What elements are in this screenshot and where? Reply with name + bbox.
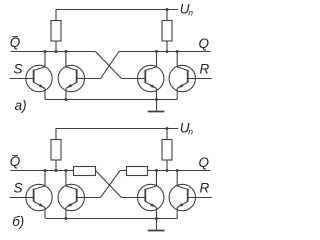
wire VT1 collector a (44, 52, 46, 67)
resistor R1 b (51, 140, 61, 161)
transistor VT2 b (58, 184, 84, 210)
svg-text:Q: Q (10, 154, 21, 169)
node Qbar-T1 collector b (44, 169, 47, 172)
wire VT2 emitter a (65, 88, 67, 99)
label Q a (199, 36, 210, 51)
resistor R2 a (162, 21, 172, 42)
wire VT4 emitter a (176, 88, 178, 99)
node rail-ground a (155, 98, 158, 101)
node rail-R2 junction a (166, 8, 169, 11)
wire VT3 collector b (156, 171, 158, 186)
node Qbar-T1 collector a (44, 50, 47, 53)
svg-text:Q: Q (199, 36, 210, 51)
wire Q to T2 base a (85, 52, 120, 79)
wire V+ rail a (56, 10, 178, 21)
transistor VT2 a (58, 65, 84, 91)
wire VT3 emitter a (156, 88, 158, 99)
transistor VT3 a (138, 65, 164, 91)
svg-text:R: R (200, 62, 210, 77)
transistor VT4 a (169, 65, 195, 91)
label Un a (180, 1, 194, 17)
resistor R3 coupling b (74, 167, 96, 176)
wire VT4 collector b (176, 171, 178, 186)
node Q-T4 collector a (176, 50, 179, 53)
wire VT3 emitter b (156, 207, 158, 218)
wire VT1 emitter a (44, 88, 46, 99)
resistor R2 b (162, 140, 172, 161)
label Q b (199, 155, 210, 170)
transistor VT1 a (26, 65, 52, 91)
svg-text:S: S (13, 62, 22, 77)
wire emitter rail a (45, 99, 177, 101)
ground a (148, 100, 165, 112)
label S a (13, 62, 22, 77)
wire VT3 collector a (156, 52, 158, 67)
transistor VT1 b (26, 184, 52, 210)
node rail-ground b (155, 217, 158, 220)
wire R2 top stub a (166, 10, 168, 21)
wire R input a (196, 78, 212, 80)
label Qbar b (10, 154, 21, 169)
svg-text:n: n (188, 126, 193, 136)
wire R2 top stub b (166, 129, 168, 140)
node Q-T3 collector b (155, 169, 158, 172)
wire R1 bottom stub b (55, 160, 57, 171)
svg-text:R: R (200, 181, 210, 196)
svg-text:а): а) (15, 98, 27, 113)
node Qbar-T2 collector a (64, 50, 67, 53)
wire Qbar to T3 base a (95, 52, 137, 79)
node Qbar-R1 b (55, 169, 58, 172)
svg-text:S: S (13, 181, 22, 196)
svg-text:б): б) (12, 214, 24, 229)
wire S input b (10, 197, 26, 199)
wire Q a (119, 51, 211, 53)
node Q-R2 b (166, 169, 169, 172)
svg-text:Q: Q (10, 35, 21, 50)
label S b (13, 181, 22, 196)
resistor R4 coupling b (127, 167, 148, 176)
wire R2 bottom stub a (166, 41, 168, 52)
wire R1 bottom stub a (55, 41, 57, 52)
ground b (148, 219, 165, 231)
svg-text:Q: Q (199, 155, 210, 170)
wire VT2 collector b (65, 171, 67, 186)
wire VT1 collector b (44, 171, 46, 186)
wire Qbar b (10, 170, 73, 172)
wire R4 left stub b (120, 170, 127, 172)
node Qbar-R1 a (55, 50, 58, 53)
wire Q b (148, 170, 211, 172)
wire emitter rail b (45, 218, 177, 220)
node rail-R2 junction b (166, 127, 169, 130)
wire Qbar a (10, 51, 95, 53)
node Q-T4 collector b (176, 169, 179, 172)
node Qbar-T2 collector b (64, 169, 67, 172)
label Un b (180, 120, 194, 136)
wire R input b (196, 197, 212, 199)
node rail-VT2 emitter a (64, 98, 67, 101)
label Qbar a (10, 35, 21, 50)
transistor VT4 b (169, 184, 195, 210)
wire Q to T2 base b (85, 171, 121, 198)
resistor R1 a (51, 21, 61, 42)
node Q-T3 collector a (155, 50, 158, 53)
transistor VT3 b (138, 184, 164, 210)
label R a (200, 62, 210, 77)
label variant а (15, 98, 27, 113)
wire V+ rail b (56, 129, 178, 140)
wire VT4 emitter b (176, 207, 178, 218)
label R b (200, 181, 210, 196)
wire R2 bottom stub b (166, 160, 168, 171)
wire Qbar to T3 base b (96, 171, 138, 198)
node rail-VT2 emitter b (64, 217, 67, 220)
label variant б (12, 214, 24, 229)
node Q-R2 a (166, 50, 169, 53)
wire VT2 emitter b (65, 207, 67, 218)
svg-text:n: n (188, 7, 193, 17)
wire VT2 collector a (65, 52, 67, 67)
wire VT1 emitter b (44, 207, 46, 218)
wire VT4 collector a (176, 52, 178, 67)
wire S input a (10, 78, 26, 80)
